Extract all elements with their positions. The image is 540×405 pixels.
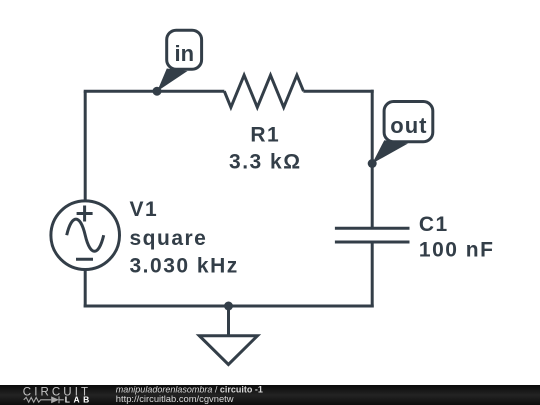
svg-text:http://circuitlab.com/cgvnetw: http://circuitlab.com/cgvnetw [116,393,234,404]
svg-text:R1: R1 [250,123,280,146]
logo resistor-diode glyph [24,396,64,403]
svg-text:3.3 kΩ: 3.3 kΩ [229,151,302,174]
wire right vertical upper [371,90,374,229]
svg-text:100 nF: 100 nF [419,239,495,262]
junction dot ground [224,302,233,311]
svg-text:in: in [175,41,195,66]
svg-text:square: square [130,227,208,250]
wire bottom horizontal [84,305,374,308]
node label out [372,102,433,164]
junction dot node out [368,159,377,168]
wire left vertical upper [84,91,87,201]
resistor R1 [224,75,303,107]
wire right vertical lower [371,242,374,308]
wire top horizontal left [84,90,225,93]
svg-text:C1: C1 [419,213,449,236]
svg-text:out: out [390,113,427,138]
node label in [157,30,201,91]
wire top horizontal right [303,90,373,93]
junction dot node in [153,87,162,96]
ground [199,306,257,365]
footer bar [0,384,540,405]
svg-text:LAB: LAB [65,395,93,405]
wire left vertical lower [84,271,87,308]
voltage source V1 [51,201,120,270]
svg-text:3.030 kHz: 3.030 kHz [130,254,239,277]
capacitor C1 [335,228,410,242]
svg-text:V1: V1 [130,198,159,221]
